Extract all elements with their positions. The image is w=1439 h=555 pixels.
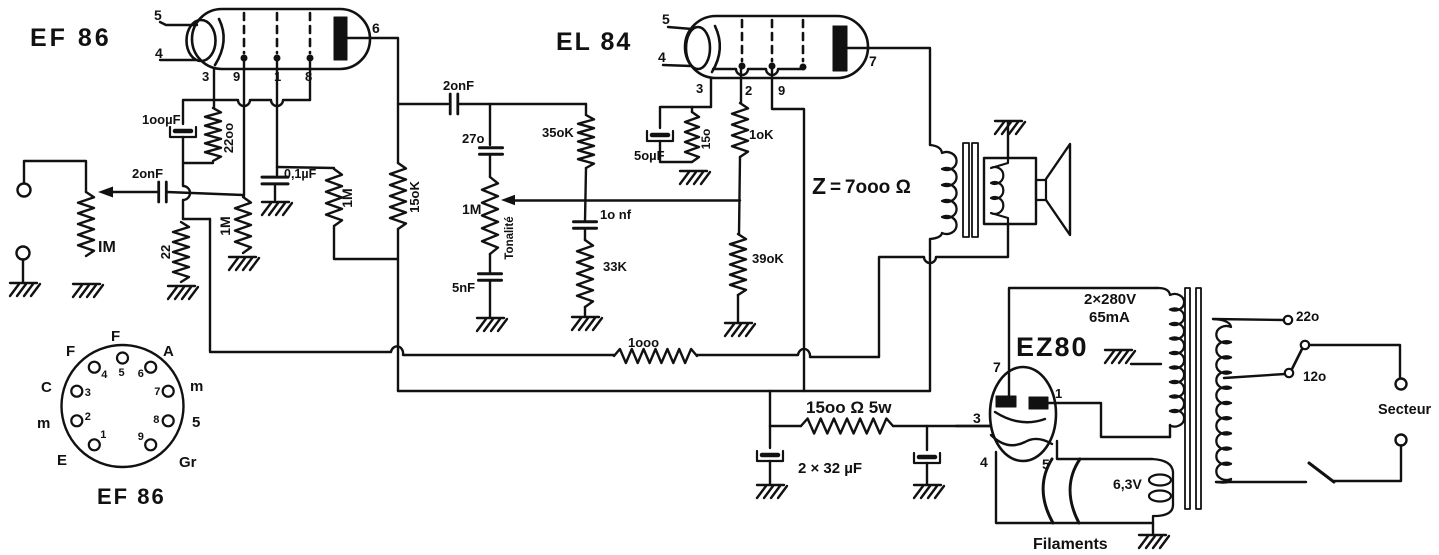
tube V3 cathode arc 2	[991, 435, 1052, 445]
wire cathode bus with hops	[183, 100, 310, 124]
HT winding 2x280V	[1158, 288, 1184, 427]
wire junction down to 270	[489, 104, 491, 145]
socket pin 1 hole	[89, 439, 100, 450]
tube V2 grid 2 (dashed electrode)	[771, 20, 774, 61]
filament lead curve 2	[1070, 459, 1080, 523]
svg-text:15o: 15o	[699, 129, 713, 150]
svg-text:EF 86: EF 86	[30, 24, 112, 52]
wire node A link	[183, 163, 213, 219]
svg-text:Z: Z	[812, 173, 826, 199]
svg-text:4: 4	[155, 45, 163, 61]
svg-text:2: 2	[85, 411, 91, 423]
wire 20nF to 350K node	[459, 103, 586, 105]
resistor 350K	[578, 115, 594, 168]
resistor 1000 feedback	[614, 349, 697, 363]
svg-text:5: 5	[662, 11, 670, 27]
wire pin3 V1 cathode	[213, 69, 215, 108]
wire pin5 V3 heater	[1057, 441, 1152, 459]
ground under 390K	[725, 322, 752, 324]
terminal 120	[1285, 369, 1293, 377]
svg-text:39oK: 39oK	[752, 251, 784, 266]
svg-text:1ooµF: 1ooµF	[142, 112, 181, 127]
svg-text:33K: 33K	[603, 259, 627, 274]
svg-text:22o: 22o	[1296, 309, 1319, 324]
resistor 1M grid leak	[235, 197, 251, 253]
wire 20nF to grid node	[167, 192, 243, 195]
socket pin 7 hole	[163, 386, 174, 397]
resistor 2200 cathode	[205, 108, 221, 161]
svg-text:3: 3	[696, 81, 703, 96]
mains switch blade open	[1309, 463, 1334, 482]
capacitor 100uF electrolytic	[175, 129, 191, 134]
output transformer core	[963, 143, 969, 237]
wire 1M feed bottom	[334, 226, 397, 259]
ground under 0.1uF	[262, 201, 289, 203]
svg-text:0,1µF: 0,1µF	[284, 167, 317, 181]
speaker magnet box	[984, 158, 1036, 224]
wire screen to caps	[275, 167, 277, 200]
svg-text:22: 22	[158, 245, 173, 259]
svg-text:7: 7	[154, 386, 160, 398]
wire pin4 V3 heater	[996, 452, 1153, 523]
svg-text:9: 9	[778, 83, 785, 98]
wire V1 plate to node	[347, 38, 398, 163]
wire 100uF bottom to node A	[183, 137, 190, 219]
wire 350K top	[585, 104, 587, 115]
svg-text:2onF: 2onF	[132, 166, 163, 181]
winding 6.3V loop 2	[1149, 491, 1171, 502]
speaker cone	[1046, 144, 1070, 235]
svg-text:6,3V: 6,3V	[1113, 476, 1142, 492]
input jack lower	[17, 247, 30, 260]
svg-text:2: 2	[745, 83, 752, 98]
wire B+ bus	[398, 390, 930, 392]
wire pin9 V2 screen	[772, 68, 804, 391]
svg-text:F: F	[111, 328, 120, 345]
wire pin5 V2	[668, 27, 692, 29]
wire 10K to junction	[739, 157, 740, 234]
svg-text:8: 8	[153, 414, 159, 426]
svg-text:EZ80: EZ80	[1016, 332, 1089, 362]
svg-text:5: 5	[154, 7, 162, 23]
resistor 150 cathode	[685, 112, 699, 162]
svg-text:7: 7	[993, 359, 1001, 375]
svg-text:E: E	[57, 452, 67, 469]
wire pin1 V1 screen	[276, 61, 278, 167]
wire pin1 V3 to HT bottom	[1048, 403, 1170, 437]
wire pin3 V2 cathode	[710, 78, 712, 107]
svg-text:C: C	[41, 379, 52, 396]
svg-text:Filaments: Filaments	[1033, 536, 1108, 553]
svg-text:3: 3	[85, 387, 91, 399]
svg-text:A: A	[163, 343, 174, 360]
svg-text:15oo Ω 5w: 15oo Ω 5w	[806, 398, 892, 417]
wire selector to mains upper	[1309, 345, 1400, 378]
svg-text:6: 6	[372, 20, 380, 36]
terminal selector top	[1301, 341, 1309, 349]
wire screen to 1M feed	[277, 167, 334, 168]
wiper arrow volume	[106, 191, 157, 193]
tube V1 grid 2 (dashed electrode)	[276, 13, 279, 53]
capacitor 5nF	[479, 272, 502, 275]
svg-text:2 × 32 µF: 2 × 32 µF	[798, 460, 862, 477]
wire 390K to ground	[737, 295, 739, 322]
socket pin 4 hole	[89, 362, 100, 373]
wire V2 plate to transformer	[847, 48, 930, 145]
socket pin 3 hole	[71, 386, 82, 397]
svg-text:1ooo: 1ooo	[628, 335, 659, 350]
ground under first 32uF	[757, 484, 784, 486]
svg-text:9: 9	[233, 69, 240, 84]
wire pin5 V1	[160, 22, 197, 25]
svg-text:m: m	[37, 415, 50, 432]
tube V2 EL84 envelope	[685, 16, 868, 78]
wire feedback left segment	[210, 346, 614, 355]
svg-text:2×280V: 2×280V	[1084, 291, 1136, 308]
tube V2 anode plate	[833, 26, 847, 71]
wire cathode to 50uF	[660, 107, 711, 128]
svg-text:2onF: 2onF	[443, 78, 474, 93]
wire mains lower to switch	[1334, 446, 1401, 482]
wire 150K to B+ bus	[397, 229, 399, 391]
wiper arrow tone	[501, 195, 515, 205]
wire pot to 5nF	[489, 254, 491, 272]
capacitor 0.1uF	[262, 176, 288, 179]
tube V3 anode 2	[1029, 397, 1048, 409]
ground under lower jack	[10, 282, 37, 284]
wire feedback down	[209, 219, 211, 351]
wire bus to filter node	[769, 391, 771, 426]
tube V3 anode 1	[996, 396, 1016, 407]
svg-text:EF 86: EF 86	[97, 484, 166, 509]
wire jack to pot	[24, 161, 86, 192]
speaker voice coil	[991, 158, 1008, 224]
potentiometer 1M volume	[78, 192, 94, 256]
wire primary bottom to bus	[929, 239, 931, 391]
svg-text:12o: 12o	[1303, 369, 1326, 384]
capacitor 270pF	[480, 146, 503, 149]
resistor 1M screen feed	[326, 169, 342, 226]
tube V3 EZ80 envelope	[990, 367, 1056, 461]
capacitor 32uF second	[926, 426, 928, 450]
wire pin3 V3 cathode out	[956, 425, 990, 427]
wire HT bottom	[1169, 425, 1171, 437]
svg-text:m: m	[190, 378, 203, 395]
svg-text:Gr: Gr	[179, 454, 197, 471]
wire jack lower to ground	[22, 260, 24, 283]
svg-text:EL 84: EL 84	[556, 28, 632, 56]
svg-text:7: 7	[869, 53, 877, 69]
resistor 10K grid stopper	[732, 103, 748, 157]
svg-text:1: 1	[1055, 386, 1062, 401]
svg-text:1M: 1M	[217, 216, 233, 235]
wire 1500 to rectifier	[893, 425, 990, 427]
svg-text:IM: IM	[98, 239, 116, 256]
output transformer primary winding	[930, 145, 957, 239]
socket pin 2 hole	[71, 415, 82, 426]
tube V1 anode plate	[334, 17, 347, 60]
wire tone bus	[513, 199, 740, 201]
svg-text:6: 6	[138, 368, 144, 380]
socket pin 5 hole	[117, 353, 128, 364]
svg-text:65mA: 65mA	[1089, 309, 1130, 326]
voltage selector blade	[1292, 349, 1302, 369]
resistor 33K	[577, 240, 593, 307]
svg-text:22oo: 22oo	[221, 123, 236, 153]
wire 270 to pot	[489, 155, 491, 177]
capacitor 20nF input	[157, 182, 160, 202]
input jack upper	[18, 184, 31, 197]
svg-text:35oK: 35oK	[542, 125, 574, 140]
wire 120 tap	[1224, 374, 1285, 378]
capacitor 20nF coupling	[449, 94, 452, 114]
resistor 1500 ohm 5W	[801, 419, 893, 434]
ground under second 32uF	[914, 484, 941, 486]
wire pin9 V1 grid	[243, 61, 245, 196]
svg-text:3: 3	[202, 69, 209, 84]
ground under 33K	[572, 316, 599, 318]
svg-text:1o nf: 1o nf	[600, 207, 632, 222]
svg-text:5nF: 5nF	[452, 280, 475, 295]
resistor 22 cathode	[173, 222, 189, 282]
wire 350K to 10nF	[585, 168, 586, 221]
svg-text:1M: 1M	[462, 201, 481, 217]
svg-text:1: 1	[100, 429, 106, 441]
wire plate node to 20nF	[398, 103, 448, 105]
tube V1 grid 3 (dashed electrode)	[309, 13, 312, 53]
wire pin7 V3 to HT top	[1009, 288, 1158, 396]
ground above speaker	[995, 120, 1022, 122]
wire 50uF bottom	[660, 141, 692, 162]
svg-text:4: 4	[101, 369, 108, 381]
wire 150 top	[691, 107, 693, 112]
svg-text:5: 5	[119, 367, 125, 379]
wire 10nF to 33K	[584, 229, 586, 240]
svg-text:3: 3	[973, 410, 981, 426]
potentiometer 1M tone	[482, 177, 498, 254]
terminal 220	[1284, 316, 1292, 324]
winding 6.3V outline	[1152, 459, 1173, 523]
mains primary winding	[1213, 319, 1231, 483]
capacitor 10nF	[574, 220, 597, 223]
tube V1 grid 1 (dashed electrode)	[243, 13, 246, 53]
wire pin4 V1	[160, 59, 196, 61]
wire pin8 V1	[309, 61, 311, 100]
power transformer core	[1185, 288, 1190, 509]
svg-text:9: 9	[138, 431, 144, 443]
resistor 150K plate load	[390, 163, 406, 229]
socket pin 6 hole	[145, 362, 156, 373]
speaker neck	[1036, 180, 1046, 200]
wire filter node left	[770, 425, 801, 427]
tube V2 grid 1 (dashed electrode)	[741, 20, 744, 61]
ground under heater winding	[1152, 523, 1154, 534]
HT center tap ground	[1105, 349, 1132, 351]
wire switch to winding bottom	[1216, 481, 1306, 483]
resistor 390K grid leak	[730, 234, 746, 295]
tube V1 EF86 envelope	[187, 9, 371, 69]
ground under volume pot	[73, 283, 100, 285]
svg-text:4: 4	[980, 454, 988, 470]
socket pin 8 hole	[163, 415, 174, 426]
winding 6.3V loop 1	[1149, 475, 1171, 486]
wire 220 tap	[1213, 319, 1284, 320]
wire 33K to ground	[584, 307, 586, 316]
wire 5nF to ground	[489, 281, 491, 317]
mains terminal lower	[1396, 435, 1407, 446]
svg-text:1oK: 1oK	[749, 127, 774, 142]
svg-text:1M: 1M	[339, 188, 355, 207]
ground under 1M grid leak	[229, 256, 256, 258]
ground under 22	[168, 285, 195, 287]
wire pin4 V2	[663, 65, 691, 66]
socket pin 9 hole	[145, 439, 156, 450]
wire pin2 V2 grid	[740, 68, 742, 103]
svg-text:F: F	[66, 343, 75, 360]
wire feedback with hop	[697, 349, 879, 357]
EF86 socket outline	[62, 345, 184, 467]
capacitor 32uF first	[769, 426, 771, 448]
capacitor 50uF electrolytic	[652, 133, 668, 138]
tube V2 internal cathode wire	[713, 69, 801, 75]
tube V3 cathode arc 1	[995, 412, 1045, 422]
svg-text:15oK: 15oK	[407, 180, 422, 212]
wire secondary to feedback	[879, 224, 1008, 357]
svg-text:27o: 27o	[462, 131, 484, 146]
svg-text:Secteur: Secteur	[1378, 402, 1432, 418]
svg-text:4: 4	[658, 49, 666, 65]
tube V2 grid 3 (dashed electrode)	[802, 20, 805, 61]
ground under 5nF	[477, 317, 504, 319]
svg-text:Tonalité: Tonalité	[504, 216, 516, 259]
svg-text:= 7ooo Ω: = 7ooo Ω	[830, 177, 911, 198]
ground under 150	[680, 170, 707, 172]
svg-text:5: 5	[192, 414, 200, 431]
filament lead curve 1	[1043, 459, 1053, 523]
mains terminal upper	[1396, 379, 1407, 390]
